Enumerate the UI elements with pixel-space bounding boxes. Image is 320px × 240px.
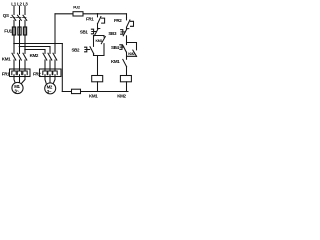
pushbutton SB3 actuator [121, 30, 126, 35]
svg-text:KM1: KM1 [96, 39, 103, 43]
svg-text:L3: L3 [23, 2, 28, 7]
thermal contact FR1 (NC) [98, 14, 105, 24]
thermal relay FR2 element 2 [48, 71, 52, 77]
fuse on bottom rail [72, 89, 81, 93]
svg-text:FR2: FR2 [114, 18, 122, 23]
wire KM1 contact to coil KM2 [126, 66, 128, 75]
svg-text:FR1: FR1 [2, 71, 10, 76]
thermal relay FR1 element 3 [23, 71, 27, 77]
pushbutton SB2 actuator [85, 47, 90, 52]
thermal relay FR2 element 1 [43, 71, 47, 77]
svg-text:KM1: KM1 [2, 56, 11, 61]
pushbutton SB4 actuator [120, 45, 124, 50]
wire FU1 to KM1 pole1 [13, 35, 15, 54]
wire bus3 corner to KM2 pole1 [44, 50, 46, 54]
switch QS linkage dashed [11, 17, 27, 19]
svg-text:KM2: KM2 [30, 53, 39, 58]
wire FR2 to motor M2 left [45, 77, 46, 84]
svg-text:KM1: KM1 [111, 59, 120, 64]
svg-text:QS: QS [3, 13, 9, 18]
node rung1 top junction [97, 13, 99, 15]
wire FR1 contact to SB1 [97, 24, 99, 29]
wire control top rail [55, 13, 127, 15]
bus phase3 to branch2 [25, 49, 45, 51]
node feed junction [54, 43, 56, 45]
coil KM1 [92, 76, 103, 82]
node bus2 tap [19, 46, 21, 48]
wire FR1 to motor M1 right [21, 77, 25, 84]
coil KM2 [120, 76, 131, 82]
thermal relay FR1 element 2 [17, 71, 21, 77]
wire KM2 to FR2 pole3 [54, 60, 56, 71]
svg-text:L1: L1 [11, 2, 16, 7]
wire FU1 to KM1 pole2 [19, 35, 21, 54]
wire KM2 to FR2 pole1 [44, 60, 46, 71]
contactor KM1 pole 1 [12, 53, 16, 60]
pushbutton SB1 contact (NC) [94, 29, 99, 36]
wire L3 drop [24, 7, 26, 15]
pushbutton SB4 contact (NO) [123, 45, 127, 52]
switch QS pole 3 [23, 15, 27, 20]
bus phase1 to branch2 [14, 43, 62, 45]
switch QS pole 2 [18, 15, 22, 20]
wire QS to FU1 pole3 [24, 20, 26, 27]
wire rung2 top corner [126, 14, 128, 18]
wire QS to FU1 pole2 [19, 20, 21, 27]
parallel loop rung2 [127, 43, 137, 57]
svg-text:FR2: FR2 [33, 71, 41, 76]
thermal relay FR1 element 1 [12, 71, 16, 77]
contactor KM2 pole 3 [53, 53, 57, 60]
svg-text:SB2: SB2 [72, 48, 81, 53]
contactor KM2 pole 2 [48, 53, 52, 60]
pushbutton SB3 contact (NC) [123, 29, 129, 36]
wire L1 drop [13, 7, 15, 15]
pushbutton SB1 actuator [91, 29, 95, 34]
thermal relay FR1 box [10, 69, 31, 77]
svg-text:FR1: FR1 [86, 17, 94, 22]
contact KM1 sequence (NO) [123, 56, 127, 67]
svg-text:L2: L2 [17, 2, 22, 7]
pushbutton SB2 contact (NO) [90, 47, 94, 54]
wire KM1 to FR1 pole3 [24, 60, 26, 71]
wire KM1 to FR1 pole1 [13, 60, 15, 71]
switch QS pole 1 [12, 15, 16, 20]
contactor KM2 pole 1 [43, 53, 47, 60]
fuse FU1 element 3 [23, 27, 26, 35]
wire control feed drop (KM2 pole2) [54, 14, 56, 54]
wire L2 drop [19, 7, 21, 15]
wire coil KM2 to bottom rail [126, 82, 128, 92]
wire KM1 to FR1 pole2 [19, 60, 21, 71]
wire control return drop [61, 44, 63, 92]
wire KM2 to FR2 pole2 [49, 60, 51, 71]
svg-text:SB4: SB4 [111, 45, 120, 50]
wire coil KM1 to bottom rail [97, 82, 99, 92]
wire bus2 corner to KM2 pole3 [49, 47, 51, 54]
contactor KM1 pole 2 [18, 53, 22, 60]
wire FR2 to motor M2 mid [49, 77, 51, 83]
thermal contact FR2 (NC) [127, 18, 134, 28]
wire FR1 to motor M1 left [14, 77, 15, 84]
wire FR1 to motor M1 mid [19, 77, 21, 83]
node bus3 tap [24, 49, 26, 51]
wire FR2 contact to SB3 [126, 27, 128, 29]
motor M2 circle [45, 83, 56, 94]
thermal relay FR2 element 3 [53, 71, 57, 77]
wire SB3 to loop2 [126, 36, 128, 43]
fuse FU1 element 1 [12, 27, 15, 35]
wire FU1 to KM1 pole3 [24, 35, 26, 54]
svg-text:KM2: KM2 [117, 93, 126, 98]
svg-text:SB3: SB3 [108, 31, 117, 36]
svg-text:SB1: SB1 [80, 29, 89, 34]
wire FR2 to motor M2 right [53, 77, 55, 84]
node bus1 tap [13, 43, 15, 45]
wire loop1 to coil KM1 [97, 56, 99, 76]
wire bottom rail [62, 91, 128, 93]
motor M1 circle [12, 82, 23, 93]
fuse FU1 element 2 [18, 27, 21, 35]
contact KM1 auxiliary (NO) [101, 37, 105, 44]
svg-text:FU1: FU1 [4, 29, 12, 34]
thermal relay FR2 box [40, 69, 62, 77]
contact KM2 auxiliary (NO) [133, 50, 137, 56]
svg-text:FU2: FU2 [73, 5, 81, 10]
bus phase2 to branch2 [20, 46, 51, 48]
fuse FU2 element [73, 12, 83, 16]
parallel loop rung1 [94, 36, 105, 56]
svg-text:KM1: KM1 [89, 93, 98, 98]
wire QS to FU1 pole1 [13, 20, 15, 27]
contactor KM1 pole 3 [23, 53, 27, 60]
